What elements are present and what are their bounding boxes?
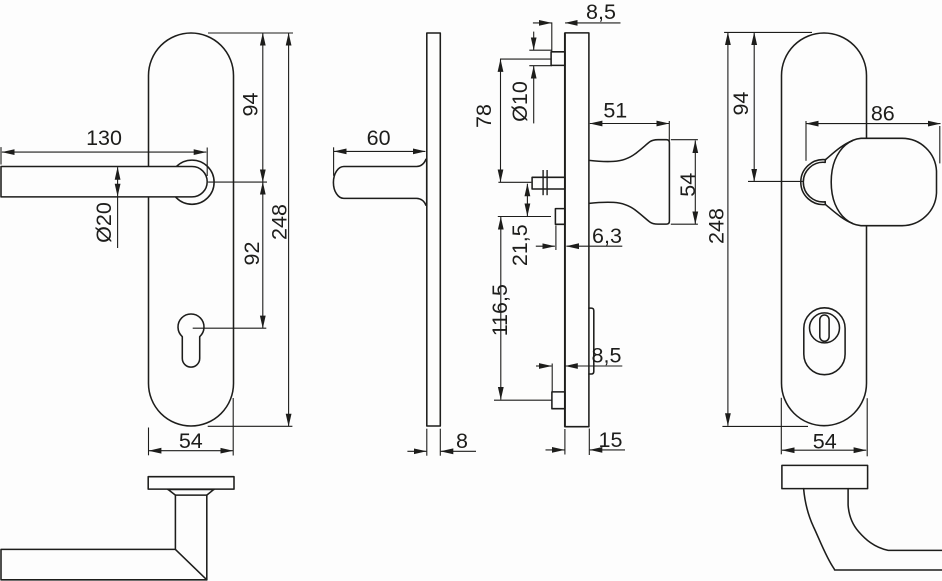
svg-text:116,5: 116,5 <box>488 284 512 336</box>
dim 21,5 line <box>526 184 528 216</box>
exterior plate front face edge (thick line) <box>564 33 566 427</box>
svg-text:248: 248 <box>705 208 729 244</box>
fixed knob head (front view, egg shape) <box>831 138 936 225</box>
svg-text:54: 54 <box>676 173 700 197</box>
svg-text:86: 86 <box>871 101 895 125</box>
knob neck ring outer arc <box>801 160 826 205</box>
dim 54 knob ext bottom <box>671 223 698 225</box>
dim 54 ext left (view1) <box>148 428 150 456</box>
dim D10 ext lower <box>529 65 552 67</box>
dim 15 ext left <box>564 429 566 455</box>
lever handle bar (front view, L130 D20) <box>1 167 207 197</box>
svg-text:94: 94 <box>239 93 263 117</box>
ext line knob axis (view4) <box>748 180 803 182</box>
dim 54 ext left (view4) <box>780 398 782 455</box>
interior plate cross-section (bottom view) <box>148 477 234 489</box>
dim 51 ext <box>668 121 670 141</box>
dim 94 line (view4) <box>753 32 755 181</box>
svg-text:8,5: 8,5 <box>592 344 622 368</box>
dim 130 ext left <box>0 147 2 164</box>
dim 116,5 ext <box>494 399 552 401</box>
svg-text:8: 8 <box>456 429 468 453</box>
svg-text:248: 248 <box>268 204 292 240</box>
dim 6,3 ext <box>555 225 557 250</box>
euro profile keyhole <box>178 314 204 367</box>
cylinder protection rosette (oval) <box>804 308 845 375</box>
dim 8 arrow left <box>407 450 426 452</box>
dim 94 line (view1) <box>262 33 264 182</box>
dim 86 line <box>806 123 941 125</box>
curved knob outer profile (bottom view) <box>804 489 942 570</box>
dim 51 line <box>590 123 669 125</box>
dim 8,5 lower ext <box>551 364 553 392</box>
dim 248 line (view1) <box>288 33 290 426</box>
handle neck shaft (bottom view) <box>175 495 206 580</box>
spindle retainer washer lines <box>542 170 544 195</box>
ext line plate top (view4) <box>724 31 812 33</box>
dim 130 ext right <box>206 148 208 177</box>
spindle axis ext line <box>498 181 531 183</box>
dim 21,5 ext <box>498 216 551 218</box>
lever handle neck rose (front view) <box>170 160 214 204</box>
dim 54 line (view1) <box>149 450 233 452</box>
dim 6,3 arrow left <box>536 245 555 247</box>
dim 78 line <box>500 59 502 182</box>
exterior security plate (side view, 15 thick) <box>565 33 589 427</box>
dim D10 arrow lower <box>533 66 535 123</box>
knob neck flare top <box>826 141 853 160</box>
exterior plate cross-section (bottom view) <box>782 465 868 488</box>
svg-text:Ø10: Ø10 <box>508 81 532 122</box>
knob neck flare bottom <box>826 205 853 224</box>
lever handle (side view, 60 projection) <box>333 159 426 205</box>
ext line plate bottom (view1) <box>208 425 293 427</box>
dim 54 knob ext top <box>671 139 698 141</box>
dim 15 arrow left <box>546 449 565 451</box>
dim 8 ext left <box>426 429 428 456</box>
dim D10 arrow upper <box>533 32 535 50</box>
dim 92 line <box>262 182 264 328</box>
svg-text:94: 94 <box>729 92 753 116</box>
svg-text:21,5: 21,5 <box>508 224 532 266</box>
top fixing stud (side view) <box>551 52 565 66</box>
svg-text:6,3: 6,3 <box>592 224 622 248</box>
dim 130 line <box>2 151 206 153</box>
dim 8,5 top arrow left <box>533 22 552 24</box>
svg-text:54: 54 <box>179 429 203 453</box>
dim 8,5 top arrow right <box>565 22 620 24</box>
dim 248 line (view4) <box>727 32 729 425</box>
ext line plate bottom (view4) <box>722 425 808 427</box>
dim 60 line <box>334 150 425 152</box>
fixed knob (side profile) <box>589 140 669 224</box>
dim 54 ext right (view4) <box>866 398 868 456</box>
cylinder fixing stud upper (side view) <box>555 209 565 225</box>
exterior security plate (front view) <box>782 33 867 426</box>
dim 8 ext right <box>439 429 441 456</box>
dim 86 ext left <box>805 121 807 161</box>
dim 15 ext right <box>588 429 590 456</box>
interior backplate (side view, 8 thick) <box>427 33 441 426</box>
dim 60 ext left <box>333 147 335 176</box>
svg-text:51: 51 <box>603 98 627 122</box>
ext line plate top (view1) <box>208 32 293 34</box>
svg-text:92: 92 <box>240 242 264 266</box>
svg-text:54: 54 <box>813 429 837 453</box>
knob neck ring end caps <box>824 160 826 163</box>
cylinder key slot <box>820 315 829 341</box>
svg-text:8,5: 8,5 <box>586 0 616 24</box>
dim 15 arrow right <box>590 449 625 451</box>
lever handle bar (bottom view) <box>1 549 207 579</box>
dim 8,5 lower arrow right <box>565 365 622 367</box>
dim 54 ext right (view1) <box>232 398 234 456</box>
handle neck flare (bottom view) <box>168 489 214 495</box>
svg-text:15: 15 <box>599 428 623 452</box>
curved knob inner profile (bottom view) <box>848 489 942 551</box>
svg-text:Ø20: Ø20 <box>92 202 116 243</box>
cylinder core circle <box>810 313 840 343</box>
dim 54 knob line <box>694 141 696 225</box>
dim D20 tail <box>117 196 119 248</box>
svg-text:78: 78 <box>472 104 496 128</box>
dim D10 ext upper <box>529 49 552 51</box>
svg-text:130: 130 <box>86 126 122 150</box>
knob neck ring inner arc <box>803 162 825 202</box>
bottom fixing stud (side view) <box>552 392 565 409</box>
dim 54 line (view4) <box>782 449 866 451</box>
dim 86 ext right <box>939 126 941 163</box>
svg-text:60: 60 <box>367 126 391 150</box>
dim 6,3 arrow right <box>566 245 622 247</box>
dim 116,5 line <box>500 217 502 400</box>
dim 8,5 lower arrow left <box>536 365 552 367</box>
ext line keyhole axis <box>193 327 267 329</box>
interior backplate (front view, 54x248) <box>149 33 234 426</box>
cylinder cover bulge (side view) <box>589 308 594 374</box>
spindle with retainer (side view) <box>532 177 565 189</box>
dim 8,5 top ext <box>551 22 553 51</box>
stud axis ext line <box>500 58 551 60</box>
dim D20 arrows <box>117 167 119 196</box>
ext line handle axis (view1) <box>208 181 267 183</box>
dim 8 arrow right <box>441 450 476 452</box>
